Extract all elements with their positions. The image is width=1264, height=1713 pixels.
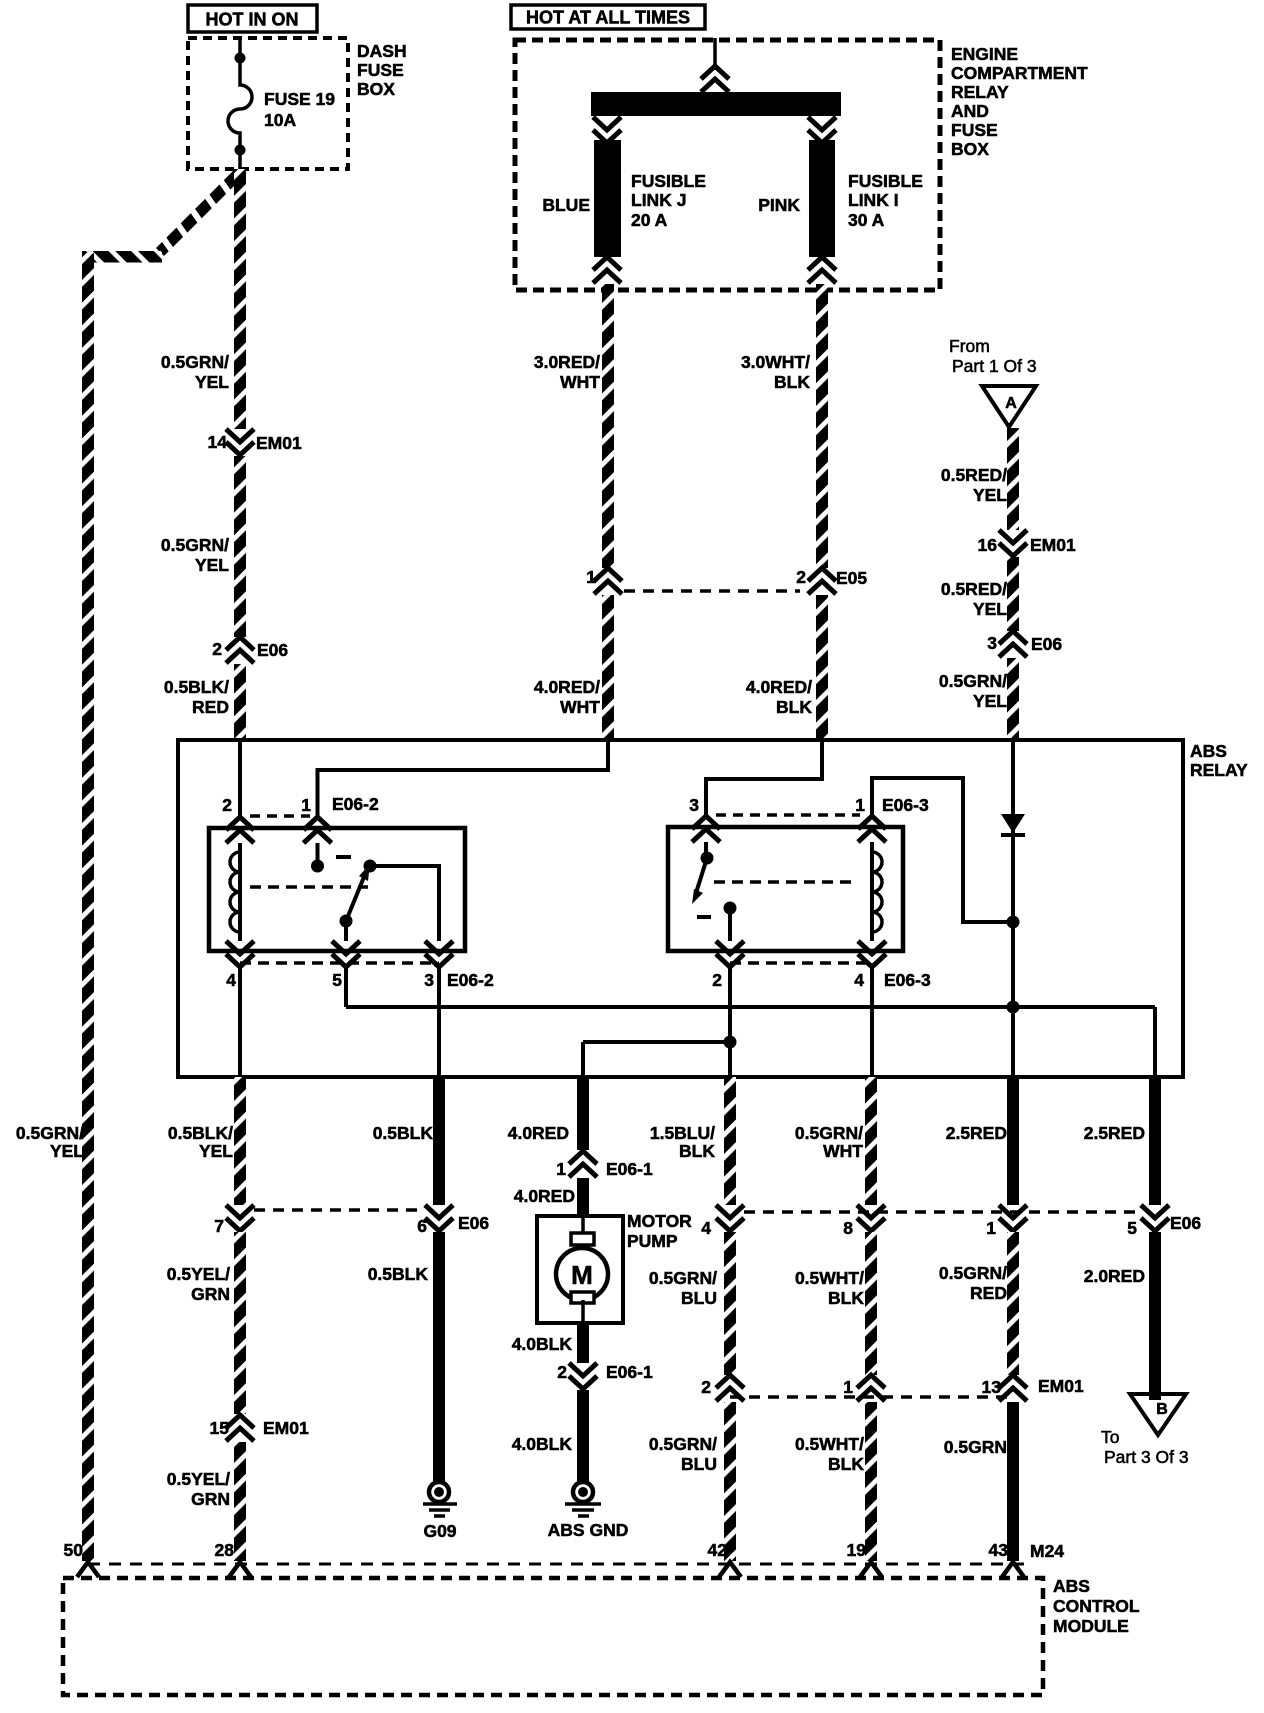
svg-text:To: To [1101,1427,1119,1447]
svg-text:0.5WHT/: 0.5WHT/ [795,1268,864,1288]
svg-text:FUSE: FUSE [357,60,404,80]
svg-text:YEL: YEL [199,1141,233,1161]
svg-text:YEL: YEL [973,691,1007,711]
svg-text:YEL: YEL [195,555,229,575]
svg-text:50: 50 [64,1540,84,1560]
svg-text:DASH: DASH [357,41,407,61]
svg-text:RED: RED [970,1283,1007,1303]
svg-text:BLU: BLU [681,1288,717,1308]
svg-text:0.5BLK: 0.5BLK [368,1264,429,1284]
svg-text:2: 2 [796,567,806,587]
svg-text:0.5GRN/: 0.5GRN/ [649,1434,717,1454]
svg-text:1.5BLU/: 1.5BLU/ [650,1123,715,1143]
svg-text:43: 43 [989,1540,1009,1560]
svg-text:BLK: BLK [776,697,812,717]
svg-text:Part 3 Of 3: Part 3 Of 3 [1104,1447,1189,1467]
svg-text:EM01: EM01 [1038,1376,1084,1396]
svg-text:0.5YEL/: 0.5YEL/ [167,1469,230,1489]
svg-text:0.5GRN/: 0.5GRN/ [161,535,229,555]
svg-text:0.5RED/: 0.5RED/ [941,465,1007,485]
svg-text:FUSIBLE: FUSIBLE [848,171,923,191]
svg-text:42: 42 [708,1540,728,1560]
svg-text:BLUE: BLUE [542,195,590,215]
svg-text:2: 2 [212,639,222,659]
svg-text:4.0RED/: 4.0RED/ [746,677,812,697]
svg-text:E06-1: E06-1 [606,1362,653,1382]
svg-text:HOT AT ALL TIMES: HOT AT ALL TIMES [526,8,690,28]
svg-text:E06: E06 [458,1213,489,1233]
svg-text:1: 1 [556,1159,566,1179]
svg-text:0.5BLK/: 0.5BLK/ [168,1123,233,1143]
svg-text:RELAY: RELAY [951,82,1009,102]
svg-text:2.0RED: 2.0RED [1084,1266,1145,1286]
svg-text:4.0BLK: 4.0BLK [512,1334,573,1354]
svg-text:0.5GRN/: 0.5GRN/ [161,352,229,372]
svg-text:4.0RED/: 4.0RED/ [534,677,600,697]
svg-text:G09: G09 [423,1521,456,1541]
svg-text:GRN: GRN [191,1284,230,1304]
svg-text:FUSIBLE: FUSIBLE [631,171,706,191]
svg-text:FUSE: FUSE [951,120,998,140]
svg-text:0.5BLK/: 0.5BLK/ [164,677,229,697]
svg-text:2: 2 [557,1362,567,1382]
svg-text:1: 1 [855,795,865,815]
svg-text:3: 3 [987,633,997,653]
svg-text:E06-1: E06-1 [606,1159,653,1179]
svg-text:E06: E06 [257,640,288,660]
svg-text:WHT: WHT [560,372,600,392]
svg-text:20 A: 20 A [631,210,668,230]
svg-text:ABS GND: ABS GND [548,1520,629,1540]
svg-text:E06-2: E06-2 [332,794,379,814]
svg-text:0.5GRN/: 0.5GRN/ [939,671,1007,691]
svg-text:28: 28 [215,1540,235,1560]
svg-text:4.0RED: 4.0RED [508,1123,569,1143]
svg-text:E06: E06 [1031,634,1062,654]
svg-text:ABS: ABS [1190,741,1227,761]
svg-text:3: 3 [689,795,699,815]
svg-text:Part 1 Of 3: Part 1 Of 3 [952,356,1037,376]
svg-text:0.5GRN/: 0.5GRN/ [649,1268,717,1288]
svg-text:4.0BLK: 4.0BLK [512,1434,573,1454]
svg-text:CONTROL: CONTROL [1053,1596,1140,1616]
svg-text:1: 1 [586,567,596,587]
svg-text:2: 2 [712,970,722,990]
svg-text:YEL: YEL [50,1141,84,1161]
svg-text:2: 2 [222,795,232,815]
svg-text:YEL: YEL [973,485,1007,505]
svg-text:0.5GRN/: 0.5GRN/ [16,1123,84,1143]
svg-text:13: 13 [982,1377,1002,1397]
svg-text:2: 2 [701,1377,711,1397]
svg-text:0.5WHT/: 0.5WHT/ [795,1434,864,1454]
svg-text:BOX: BOX [951,139,989,159]
svg-text:PINK: PINK [758,195,800,215]
svg-text:19: 19 [847,1540,867,1560]
svg-text:0.5BLK: 0.5BLK [373,1123,434,1143]
svg-text:8: 8 [843,1218,853,1238]
svg-text:YEL: YEL [973,599,1007,619]
svg-text:3: 3 [424,970,434,990]
svg-text:E06-3: E06-3 [884,970,931,990]
svg-text:0.5GRN: 0.5GRN [944,1437,1007,1457]
svg-text:GRN: GRN [191,1489,230,1509]
svg-text:E06: E06 [1170,1213,1201,1233]
svg-text:M: M [571,1260,593,1290]
svg-text:EM01: EM01 [263,1418,309,1438]
svg-text:EM01: EM01 [256,433,302,453]
svg-text:15: 15 [210,1418,230,1438]
svg-text:10A: 10A [264,110,296,130]
svg-text:RELAY: RELAY [1190,760,1248,780]
svg-text:0.5GRN/: 0.5GRN/ [795,1123,863,1143]
svg-text:5: 5 [1127,1218,1137,1238]
svg-text:7: 7 [214,1216,224,1236]
svg-text:YEL: YEL [195,372,229,392]
svg-text:0.5GRN/: 0.5GRN/ [939,1263,1007,1283]
svg-text:14: 14 [208,432,228,452]
svg-text:PUMP: PUMP [627,1231,678,1251]
svg-text:WHT: WHT [560,697,600,717]
svg-text:COMPARTMENT: COMPARTMENT [951,63,1088,83]
svg-text:4: 4 [226,970,236,990]
svg-text:ABS: ABS [1053,1576,1090,1596]
svg-text:EM01: EM01 [1030,535,1076,555]
svg-text:3.0WHT/: 3.0WHT/ [741,352,810,372]
svg-text:M24: M24 [1030,1541,1064,1561]
svg-text:BLU: BLU [681,1454,717,1474]
svg-text:BOX: BOX [357,79,395,99]
svg-text:BLK: BLK [774,372,810,392]
svg-text:1: 1 [301,795,311,815]
svg-text:3.0RED/: 3.0RED/ [534,352,600,372]
svg-text:AND: AND [951,101,989,121]
svg-text:BLK: BLK [828,1288,864,1308]
svg-text:B: B [1156,1401,1168,1418]
svg-text:E06-2: E06-2 [447,970,494,990]
svg-text:1: 1 [986,1218,996,1238]
svg-text:6: 6 [417,1216,427,1236]
svg-text:0.5RED/: 0.5RED/ [941,579,1007,599]
svg-text:2.5RED: 2.5RED [1084,1123,1145,1143]
svg-text:WHT: WHT [823,1141,863,1161]
svg-text:E06-3: E06-3 [882,795,929,815]
svg-text:1: 1 [843,1377,853,1397]
svg-text:LINK I: LINK I [848,190,899,210]
svg-text:BLK: BLK [679,1141,715,1161]
svg-text:HOT IN ON: HOT IN ON [206,10,299,30]
svg-text:4.0RED: 4.0RED [514,1186,575,1206]
svg-text:RED: RED [192,697,229,717]
svg-text:LINK J: LINK J [631,190,686,210]
svg-text:BLK: BLK [828,1454,864,1474]
svg-text:ENGINE: ENGINE [951,44,1018,64]
svg-text:FUSE 19: FUSE 19 [264,89,335,109]
svg-text:30 A: 30 A [848,210,885,230]
svg-text:4: 4 [701,1218,711,1238]
svg-text:MODULE: MODULE [1053,1616,1129,1636]
svg-text:From: From [949,336,990,356]
svg-text:A: A [1005,395,1017,412]
svg-text:2.5RED: 2.5RED [946,1123,1007,1143]
svg-text:MOTOR: MOTOR [627,1211,692,1231]
svg-text:4: 4 [854,970,864,990]
svg-text:5: 5 [332,970,342,990]
svg-text:16: 16 [978,535,998,555]
svg-text:0.5YEL/: 0.5YEL/ [167,1264,230,1284]
svg-text:E05: E05 [836,568,867,588]
